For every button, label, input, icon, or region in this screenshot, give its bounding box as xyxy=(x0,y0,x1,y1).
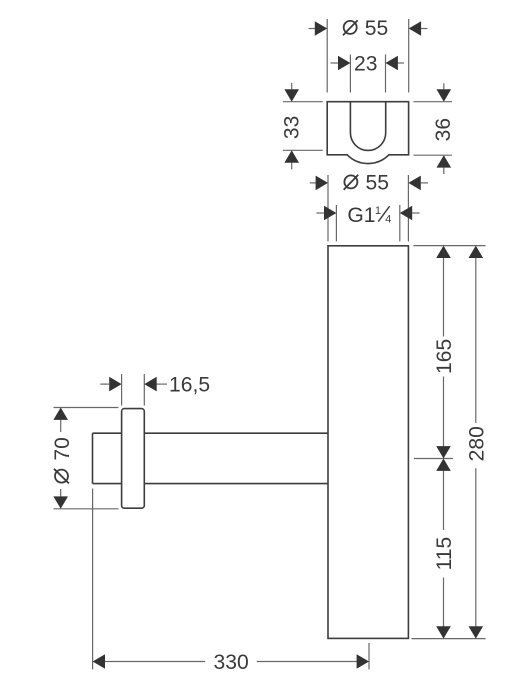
arrow 165 bottom (points down) xyxy=(436,446,451,458)
arrow 33 top (points down) xyxy=(284,89,299,101)
wall flange xyxy=(122,409,145,509)
dim tail dia70 bottom xyxy=(60,489,62,497)
svg-text:23: 23 xyxy=(354,53,377,76)
svg-text:33: 33 xyxy=(281,116,304,139)
dim line 330 right segment xyxy=(257,661,358,663)
dim tail G1-1/4 left xyxy=(316,212,324,214)
ext line right bottom (115/280) xyxy=(411,638,485,640)
svg-text:1: 1 xyxy=(375,205,381,217)
dim tail 23 left xyxy=(331,62,339,64)
label 36 (rotated) xyxy=(432,118,455,141)
ext line dia55-top left xyxy=(326,19,328,93)
arrow 280 top (points up) xyxy=(469,246,484,258)
dim line 115 lower segment xyxy=(443,578,445,628)
svg-text:16,5: 16,5 xyxy=(169,374,210,397)
ext line G1-1/4 right xyxy=(399,205,401,241)
label 115 (rotated) xyxy=(433,537,456,571)
arrow 165 top (points up) xyxy=(436,246,451,258)
ext line 33 top xyxy=(283,101,323,103)
ext line dia70 top xyxy=(54,407,119,409)
ext line right middle (165/115) xyxy=(414,458,453,460)
ext line 23 right xyxy=(385,55,387,93)
ext line dia55-mid right xyxy=(407,175,409,241)
arrow G1-1/4 left (points right) xyxy=(324,206,336,221)
ext line dia55-mid left xyxy=(327,175,329,241)
arrow dia70 bottom (points down) xyxy=(53,496,68,508)
dim line 280 lower segment xyxy=(475,468,477,627)
label 33 (rotated) xyxy=(281,116,304,139)
arrow 36 top (points down) xyxy=(437,89,452,101)
dim tail dia70 top xyxy=(60,420,62,433)
ext line 36 top xyxy=(413,101,452,103)
dim line 330 left segment xyxy=(105,661,206,663)
label dia55 top: diameter symbol xyxy=(343,20,358,35)
svg-text:G1: G1 xyxy=(347,204,375,227)
svg-text:70: 70 xyxy=(51,437,74,460)
dim tail dia55-mid left xyxy=(310,182,317,184)
arrow dia55-mid left (points right) xyxy=(316,176,328,191)
arrow 36 bottom (points up) xyxy=(437,155,452,167)
svg-text:55: 55 xyxy=(365,17,388,40)
label dia70 (rotated): diameter symbol xyxy=(51,437,74,483)
arrow dia55-top right (points left) xyxy=(409,21,421,36)
dim tail 33 top xyxy=(291,83,293,90)
dim tail G1-1/4 right xyxy=(412,212,419,214)
arrow 23 left (points right) xyxy=(338,56,350,71)
dim tail dia55-top left xyxy=(309,28,317,30)
bracket U-shaped cutout xyxy=(350,102,385,151)
svg-text:330: 330 xyxy=(214,651,249,674)
dim tail 33 bottom xyxy=(291,163,293,170)
ext line 33 bottom xyxy=(283,149,323,151)
dim tail dia55-mid right xyxy=(421,182,428,184)
ext line 16,5 left xyxy=(121,374,123,406)
label 280 (rotated) xyxy=(466,426,489,461)
svg-text:280: 280 xyxy=(466,426,489,461)
svg-text:55: 55 xyxy=(366,172,389,195)
svg-text:4: 4 xyxy=(385,213,391,225)
arrow dia55-top left (points right) xyxy=(315,21,327,36)
dim tail 36 bottom xyxy=(443,168,445,174)
arrow 16,5 right (points left) xyxy=(144,377,156,392)
arrow 23 right (points left) xyxy=(386,56,398,71)
dim tail dia55-top right xyxy=(420,28,427,30)
dim line 115 upper segment xyxy=(443,470,445,530)
bracket body (top view of wall bracket) xyxy=(327,102,408,164)
dim line 165 lower segment xyxy=(443,377,445,448)
arrow 330 left (points left) xyxy=(93,654,105,669)
label 165 (rotated) xyxy=(433,339,456,374)
label G1 1/4 fraction slash xyxy=(378,206,389,221)
dim line 280 upper segment xyxy=(475,258,477,424)
dim tail 36 top xyxy=(443,83,445,89)
arrow 330 right (points right) xyxy=(357,654,369,669)
main vertical body xyxy=(328,246,408,639)
dim line 165 upper segment xyxy=(443,258,445,337)
arrow dia55-mid right (points left) xyxy=(408,176,420,191)
ext line 23 left xyxy=(349,55,351,93)
arrow G1-1/4 right (points left) xyxy=(400,206,412,221)
arrow 115 bottom (points down) xyxy=(436,626,451,638)
dim tail 23 right xyxy=(398,62,404,64)
svg-text:115: 115 xyxy=(433,537,456,571)
svg-text:165: 165 xyxy=(433,339,456,374)
ext line 330 left xyxy=(92,489,94,670)
svg-text:36: 36 xyxy=(432,118,455,141)
ext line dia70 bottom xyxy=(54,508,119,510)
dim tail 16,5 left xyxy=(100,383,109,385)
arrow 16,5 left (points right) xyxy=(109,377,121,392)
ext line right top (165/280) xyxy=(413,245,485,247)
dim tail 16,5 right xyxy=(157,383,168,385)
arrow dia70 top (points up) xyxy=(53,408,68,420)
ext line 36 bottom xyxy=(413,154,452,156)
ext line 16,5 right xyxy=(143,374,145,406)
arrow 33 bottom (points up) xyxy=(284,150,299,162)
ext line G1-1/4 left xyxy=(335,205,337,241)
arrow 280 bottom (points down) xyxy=(469,626,484,638)
ext line dia55-top right xyxy=(408,19,410,93)
arrow 115 top (points up) xyxy=(436,459,451,471)
horizontal pipe xyxy=(93,433,329,483)
ext line 330 right xyxy=(368,643,370,669)
label dia55 mid: diameter symbol xyxy=(344,175,359,190)
